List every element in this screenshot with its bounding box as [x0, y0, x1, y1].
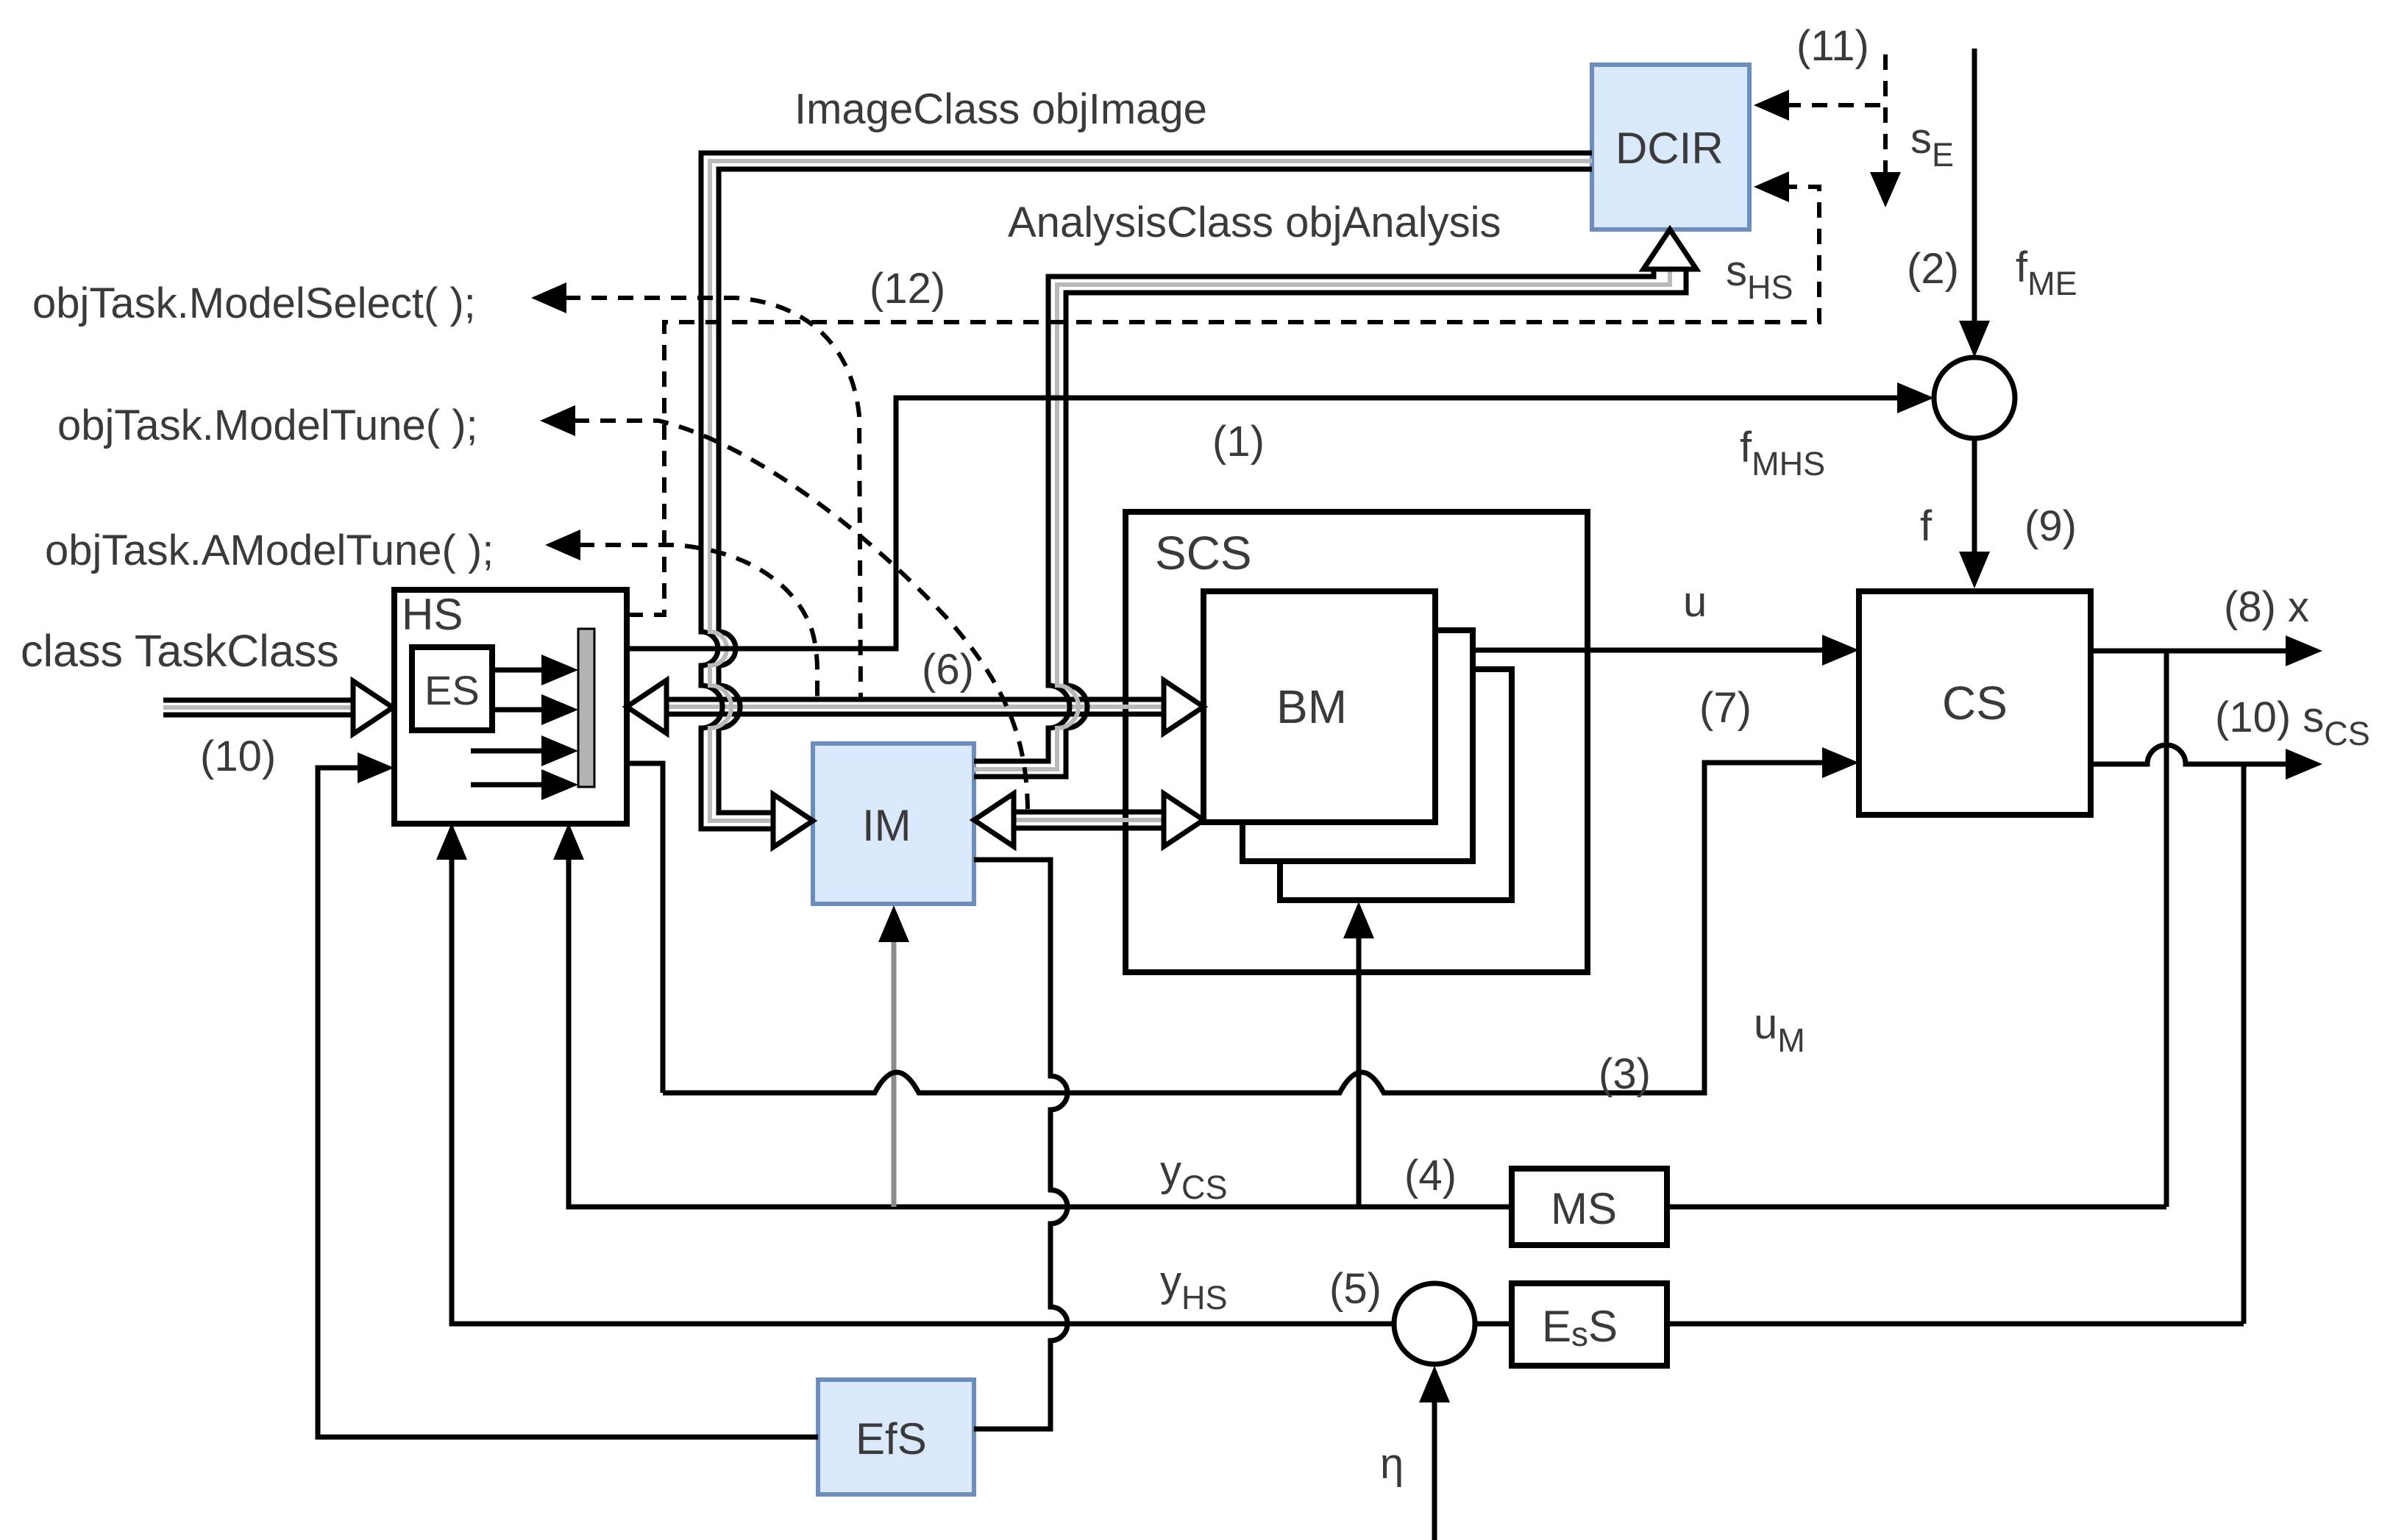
wire eta into node 2	[1419, 1366, 1450, 1540]
wire EsS feedback y_HS line to HS (5)	[436, 823, 2244, 1324]
block BM shadow 1	[1242, 630, 1473, 861]
block CS	[1859, 591, 2091, 815]
block DCIR	[1592, 65, 1749, 229]
dashed objTask.ModelSelect association	[531, 282, 861, 698]
label u_M	[1754, 1000, 1805, 1059]
label (6)	[922, 646, 974, 694]
wire EfS output to HS left	[318, 752, 818, 1437]
block ES inside HS	[412, 647, 492, 730]
arrow into bar 3	[471, 735, 578, 766]
label f	[1920, 502, 1933, 550]
label AnalysisClass objAnalysis	[1008, 199, 1501, 246]
label objTask.ModelTune( );	[57, 402, 478, 449]
svg-text:η: η	[1380, 1440, 1404, 1488]
block MS	[1512, 1169, 1667, 1245]
label objTask.ModelSelect( );	[32, 279, 476, 327]
channel IM-BM bidirectional	[974, 794, 1203, 846]
arrow ES to bar 1	[492, 655, 578, 685]
label s_E	[1910, 115, 1954, 174]
label eta	[1380, 1440, 1404, 1488]
svg-text:CS: CS	[1942, 677, 2008, 730]
label (4)	[1404, 1152, 1457, 1199]
channel AnalysisClass objAnalysis: IM to DCIR	[974, 229, 1696, 777]
dashed s_HS association HS to DCIR (12)	[627, 171, 1819, 615]
block EfS	[818, 1380, 974, 1494]
label (3)	[1599, 1050, 1651, 1098]
wire IM output down to EfS	[974, 860, 1067, 1429]
block BM	[1203, 591, 1435, 822]
summing node 2 (eta)	[1394, 1283, 1475, 1364]
label (10) s_CS	[2215, 694, 2370, 752]
svg-text:(10) sCS: (10) sCS	[2215, 694, 2370, 752]
label class TaskClass	[21, 626, 339, 676]
label (9)	[2024, 502, 2077, 550]
label (10) left	[200, 732, 276, 780]
label (7)	[1699, 684, 1752, 732]
svg-text:SCS: SCS	[1155, 527, 1252, 580]
svg-text:DCIR: DCIR	[1615, 124, 1724, 173]
svg-text:(8) x: (8) x	[2224, 583, 2309, 631]
label s_HS	[1726, 247, 1793, 306]
svg-text:class TaskClass: class TaskClass	[21, 626, 339, 676]
svg-text:u: u	[1683, 578, 1707, 626]
HS selector bar	[578, 629, 594, 787]
wire MS feedback y_CS to HS (4)	[553, 823, 2166, 1207]
svg-text:(12): (12)	[870, 265, 945, 313]
svg-text:MS: MS	[1551, 1184, 1617, 1233]
svg-text:yHS: yHS	[1160, 1258, 1228, 1316]
svg-text:(1): (1)	[1212, 418, 1265, 466]
label f_ME	[2016, 243, 2077, 302]
block SCS	[1126, 512, 1588, 972]
svg-text:ImageClass objImage: ImageClass objImage	[794, 85, 1207, 133]
svg-text:fME: fME	[2016, 243, 2077, 302]
svg-text:BM: BM	[1276, 680, 1347, 733]
svg-text:fMHS: fMHS	[1740, 424, 1825, 482]
block BM shadow 2	[1280, 669, 1512, 900]
wire u from BM to CS (7)	[1473, 635, 1859, 666]
label ImageClass objImage	[794, 85, 1207, 133]
label y_HS	[1160, 1258, 1228, 1316]
wire f_ME into node 1 (2)	[1959, 49, 1990, 357]
label (5)	[1329, 1265, 1382, 1313]
wire branch up into IM bottom (gray)	[878, 905, 909, 1207]
dashed objTask.ModelTune association	[540, 405, 1028, 810]
label (8) x	[2224, 583, 2309, 631]
svg-text:HS: HS	[402, 590, 463, 639]
svg-text:EfS: EfS	[856, 1414, 927, 1464]
dashed objTask.AModelTune association	[545, 530, 817, 698]
svg-text:objTask.AModelTune( );: objTask.AModelTune( );	[45, 527, 494, 574]
svg-text:f: f	[1920, 502, 1933, 550]
label (11)	[1796, 22, 1869, 70]
label objTask.AModelTune( );	[45, 527, 494, 574]
arrow into bar 4	[471, 769, 578, 800]
svg-text:AnalysisClass objAnalysis: AnalysisClass objAnalysis	[1008, 199, 1501, 246]
wire x output of CS (8) with branch to MS	[2091, 635, 2322, 1207]
svg-text:sE: sE	[1910, 115, 1954, 174]
channel class TaskClass into HS (10)	[163, 681, 393, 734]
summing node 1 (f)	[1934, 357, 2015, 438]
wire HS to CS via u_M path (3)	[627, 747, 1859, 1093]
svg-text:(11): (11)	[1796, 22, 1869, 70]
arrow ES to bar 2	[492, 694, 578, 725]
svg-text:(3): (3)	[1599, 1050, 1651, 1098]
label (12)	[870, 265, 945, 313]
label f_MHS	[1740, 424, 1825, 482]
svg-text:objTask.ModelTune( );: objTask.ModelTune( );	[57, 402, 478, 449]
svg-text:(7): (7)	[1699, 684, 1752, 732]
wire f_MHS from HS to node 1 (1)	[627, 382, 1934, 649]
svg-text:sHS: sHS	[1726, 247, 1793, 306]
svg-text:(9): (9)	[2024, 502, 2077, 550]
label (1)	[1212, 418, 1265, 466]
svg-text:(4): (4)	[1404, 1152, 1457, 1199]
svg-text:ES: ES	[424, 667, 480, 713]
label (2)	[1907, 245, 1959, 293]
svg-text:(2): (2)	[1907, 245, 1959, 293]
block EsS	[1512, 1283, 1667, 1366]
svg-text:(10): (10)	[200, 732, 276, 780]
svg-text:(6): (6)	[922, 646, 974, 694]
channel ImageClass objImage: DCIR to IM	[701, 153, 1592, 847]
svg-text:yCS: yCS	[1160, 1147, 1228, 1206]
block IM	[813, 744, 974, 904]
channel HS-BM bidirectional (6)	[627, 680, 1203, 733]
svg-text:(5): (5)	[1329, 1265, 1382, 1313]
label u	[1683, 578, 1707, 626]
wire s_CS output of CS (10) with branch to EsS	[2091, 745, 2322, 1324]
wire f from node 1 into CS (9)	[1959, 438, 1990, 588]
svg-text:IM: IM	[862, 801, 911, 850]
svg-text:uM: uM	[1754, 1000, 1805, 1059]
label y_CS	[1160, 1147, 1228, 1206]
wire branch u_M up into BM stack (3)	[1343, 902, 1374, 1207]
block HS	[394, 590, 627, 824]
svg-text:objTask.ModelSelect( );: objTask.ModelSelect( );	[32, 279, 476, 327]
dashed s_E input into DCIR (11)	[1754, 54, 1901, 207]
